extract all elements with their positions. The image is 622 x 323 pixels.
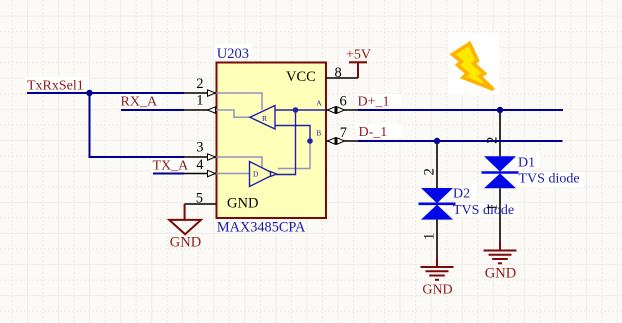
svg-text:A: A — [316, 99, 322, 108]
svg-text:D-_1: D-_1 — [359, 125, 388, 140]
svg-text:GND: GND — [170, 235, 201, 251]
svg-text:TX_A: TX_A — [153, 158, 190, 173]
svg-text:D+_1: D+_1 — [358, 95, 390, 110]
svg-text:B: B — [316, 128, 321, 137]
svg-text:2: 2 — [196, 76, 203, 92]
svg-text:D2: D2 — [453, 186, 470, 201]
svg-text:VCC: VCC — [286, 69, 316, 85]
svg-text:1: 1 — [422, 233, 438, 240]
svg-text:+5V: +5V — [346, 48, 371, 63]
svg-text:TVS diode: TVS diode — [519, 172, 580, 187]
svg-text:U203: U203 — [217, 46, 249, 62]
svg-text:2: 2 — [484, 137, 500, 144]
svg-text:3: 3 — [196, 140, 203, 156]
svg-text:1: 1 — [484, 204, 500, 211]
svg-text:5: 5 — [196, 191, 203, 207]
svg-text:R: R — [262, 114, 267, 123]
svg-text:GND: GND — [422, 283, 452, 298]
svg-text:MAX3485CPA: MAX3485CPA — [217, 220, 306, 236]
svg-text:6: 6 — [340, 94, 347, 110]
svg-text:7: 7 — [340, 125, 347, 141]
svg-text:1: 1 — [196, 93, 203, 109]
svg-text:GND: GND — [485, 266, 516, 282]
svg-text:D1: D1 — [518, 155, 535, 170]
svg-text:2: 2 — [422, 168, 438, 175]
svg-text:TxRxSel1: TxRxSel1 — [27, 78, 84, 93]
svg-text:8: 8 — [335, 65, 342, 81]
svg-text:RX_A: RX_A — [121, 95, 158, 110]
svg-text:GND: GND — [227, 196, 258, 212]
svg-text:4: 4 — [196, 157, 204, 173]
svg-text:D: D — [253, 170, 259, 179]
